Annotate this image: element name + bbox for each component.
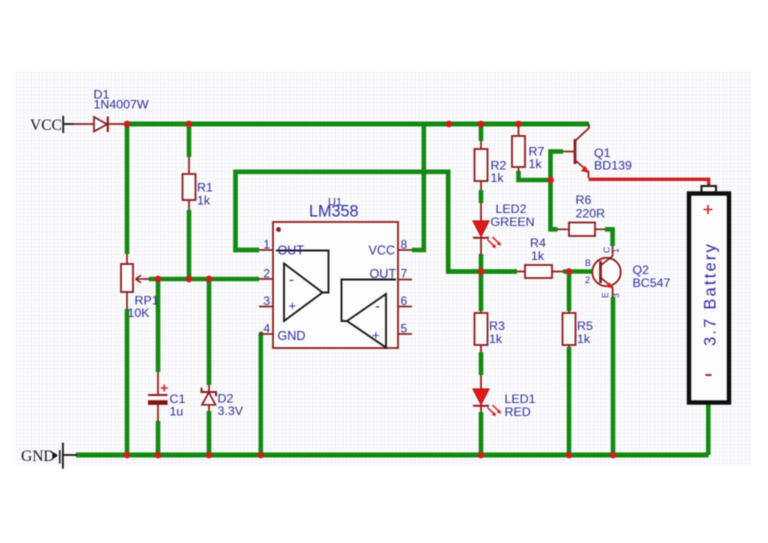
wire R2 top	[479, 124, 484, 141]
wire Q1 base	[551, 152, 564, 230]
wire D1 cathode lead	[109, 123, 129, 125]
svg-text:1u: 1u	[170, 405, 184, 419]
wire R2 leads	[480, 141, 482, 221]
junction node rail x449	[446, 121, 453, 128]
svg-text:GND: GND	[278, 329, 306, 343]
svg-text:2: 2	[263, 267, 270, 281]
svg-text:OUT: OUT	[370, 267, 397, 281]
pin 5 stub	[398, 333, 412, 335]
svg-text:1k: 1k	[489, 332, 503, 346]
svg-text:1k: 1k	[577, 332, 591, 346]
svg-text:BC547: BC547	[633, 276, 671, 290]
svg-text:10K: 10K	[128, 306, 151, 320]
wire R7 leads	[518, 124, 520, 172]
wire C1 top	[156, 279, 161, 372]
svg-text:5: 5	[401, 322, 408, 336]
svg-text:LED2: LED2	[496, 202, 527, 216]
wire R1 bottom	[187, 210, 192, 279]
op-amp U1 body	[273, 222, 398, 348]
wire R3 leads	[480, 311, 482, 352]
transistor Q2	[592, 246, 620, 297]
wire C1 leads	[157, 372, 159, 421]
svg-text:+: +	[289, 298, 297, 313]
resistor R7	[512, 136, 525, 167]
label C1	[170, 392, 186, 419]
label R7	[529, 145, 545, 172]
wire R5 leads	[568, 311, 570, 347]
svg-text:GND: GND	[21, 448, 55, 465]
svg-text:BD139: BD139	[594, 159, 632, 173]
junction node R2 top	[478, 121, 485, 128]
label RP1	[128, 294, 159, 321]
label Q1	[594, 146, 632, 173]
svg-text:1k: 1k	[491, 171, 505, 185]
pin 7 stub	[398, 279, 412, 281]
junction node R1 bottom	[186, 276, 193, 283]
resistor R5	[563, 313, 576, 345]
battery plus mark	[704, 205, 713, 214]
svg-text:1k: 1k	[531, 249, 545, 263]
svg-text:Q2: Q2	[633, 263, 650, 277]
svg-text:1k: 1k	[197, 194, 211, 208]
diode D1	[94, 117, 108, 133]
svg-text:R3: R3	[489, 319, 505, 333]
svg-text:1N4007W: 1N4007W	[94, 98, 149, 112]
wire C1 bottom	[156, 421, 161, 455]
op-amp B output wire	[342, 280, 397, 322]
wire Q1 emitter lead	[588, 171, 590, 179]
pin 2 stub	[259, 278, 273, 280]
label R3	[489, 319, 505, 346]
svg-text:8: 8	[401, 238, 408, 252]
pin 1 stub	[259, 249, 273, 251]
resistor R3	[475, 313, 488, 345]
wire LED2 anode	[479, 190, 484, 203]
svg-text:R6: R6	[576, 193, 592, 207]
svg-text:E: E	[600, 292, 610, 298]
wire LED1 leads	[480, 375, 482, 412]
battery BT1	[689, 186, 729, 403]
label D1	[94, 88, 149, 112]
svg-text:LED1: LED1	[505, 392, 536, 406]
svg-text:R4: R4	[530, 236, 546, 250]
potentiometer RP1	[121, 264, 143, 292]
wire GND rail bottom	[76, 453, 709, 458]
svg-text:RED: RED	[505, 405, 531, 419]
wire R4 leads	[517, 271, 563, 273]
wire D1 to RP1 vertical	[125, 124, 130, 254]
svg-text:3: 3	[611, 293, 621, 298]
resistor R4	[525, 265, 552, 278]
battery minus mark	[706, 374, 712, 376]
svg-text:+: +	[372, 328, 380, 343]
svg-text:VCC: VCC	[30, 117, 62, 134]
svg-text:6: 6	[401, 294, 408, 308]
svg-text:-: -	[375, 298, 380, 315]
svg-text:3: 3	[263, 294, 270, 308]
resistor R1	[183, 174, 196, 200]
wire RP1 bottom	[125, 309, 130, 455]
wire R4 to Q2 base	[563, 269, 593, 274]
junction node RP1 gnd	[124, 452, 131, 459]
wire R1 top	[187, 124, 192, 157]
wire rail to pin8	[412, 124, 424, 250]
wire Q1 base lead	[563, 151, 574, 153]
LED1	[473, 389, 501, 416]
svg-text:4: 4	[263, 322, 270, 336]
junction node Q2 emitter gnd	[610, 452, 617, 459]
wire R5 to rail	[567, 347, 572, 455]
wire Q2 emitter to rail	[611, 297, 616, 455]
junction node C1 gnd	[155, 452, 162, 459]
wire LED2 cathode lead	[480, 238, 482, 255]
resistor R2	[475, 149, 488, 181]
svg-text:1: 1	[263, 238, 270, 252]
junction node Q2 base R5	[566, 268, 573, 275]
wire GND flag lead	[64, 454, 78, 456]
wire Q1 emitter to battery red	[589, 179, 709, 187]
svg-text:VCC: VCC	[369, 244, 396, 258]
wire Q1 collector lead	[576, 124, 590, 141]
label R5	[577, 319, 593, 346]
junction node LED2 R3	[478, 268, 485, 275]
label D2	[218, 392, 244, 419]
svg-text:7: 7	[401, 267, 408, 281]
svg-text:B: B	[585, 258, 591, 268]
svg-text:LM358: LM358	[309, 203, 359, 221]
wire pin2 net	[149, 277, 259, 282]
junction node R7 R6	[547, 177, 554, 184]
wire VCC flag lead	[64, 123, 74, 125]
wire D1 anode lead	[73, 123, 94, 125]
svg-text:220R: 220R	[576, 207, 606, 221]
junction node R5 gnd	[566, 452, 573, 459]
label R1	[197, 181, 213, 208]
capacitor C1	[148, 385, 168, 403]
svg-text:3.7 Battery: 3.7 Battery	[702, 242, 720, 346]
op-amp A triangle	[284, 264, 323, 322]
svg-text:1k: 1k	[529, 157, 543, 171]
wire R6 leads	[557, 228, 605, 230]
resistor R6	[569, 223, 595, 237]
op-amp A feedback wire	[276, 251, 329, 293]
transistor Q1	[575, 139, 589, 173]
wire Q2 base lead	[593, 271, 601, 273]
svg-text:2: 2	[585, 275, 590, 285]
svg-text:-: -	[289, 272, 294, 289]
junction node R7 top	[515, 121, 522, 128]
LED2	[473, 221, 501, 248]
svg-text:1: 1	[611, 248, 621, 253]
wire base node to R5	[567, 272, 572, 312]
op-amp B triangle	[347, 294, 386, 348]
svg-text:R1: R1	[197, 181, 213, 195]
label Q2	[633, 263, 671, 290]
junction node pin4 gnd	[257, 452, 264, 459]
wire pin4 to ground rail	[259, 334, 261, 455]
pin 1 mark dot	[276, 227, 281, 232]
pin 3 stub	[259, 306, 273, 308]
wire R1 leads	[188, 157, 190, 210]
wire R7 bottom elbow	[519, 171, 551, 180]
wire RP1 leads	[127, 254, 150, 309]
wire D2 top	[207, 279, 212, 385]
junction node D2 top	[206, 276, 213, 283]
zener diode D2	[202, 388, 217, 405]
pin 6 stub	[398, 306, 412, 308]
wire VCC rail top	[127, 122, 589, 127]
wire R6 to Q2 collector	[605, 229, 613, 246]
wire LED1 to rail	[479, 412, 484, 455]
junction node C1 top	[155, 276, 162, 283]
wire node to R3	[479, 272, 484, 312]
pin 4 stub	[259, 333, 273, 335]
svg-text:OUT: OUT	[278, 244, 305, 258]
label LED2	[491, 202, 535, 229]
wire battery to rail	[706, 403, 711, 455]
label R2	[491, 159, 507, 186]
wire pin1 feedback net to R4	[236, 172, 518, 272]
wire D2 leads	[208, 385, 210, 411]
label LED1	[505, 392, 536, 419]
wire R3 to LED1	[479, 352, 484, 375]
wire LED2 cathode to node	[479, 254, 484, 272]
net flag VCC	[30, 116, 63, 134]
junction node D2 gnd	[206, 452, 213, 459]
svg-text:3.3V: 3.3V	[218, 404, 244, 418]
pin 8 stub	[398, 249, 412, 251]
junction node D1 out	[124, 121, 131, 128]
junction node R1 top	[186, 121, 193, 128]
svg-text:R5: R5	[577, 319, 593, 333]
label R6	[576, 193, 606, 221]
net flag GND	[21, 443, 63, 469]
label R4	[530, 236, 546, 263]
wire D2 bottom	[207, 411, 212, 455]
junction node LED1 gnd	[478, 452, 485, 459]
svg-text:GREEN: GREEN	[491, 215, 535, 229]
